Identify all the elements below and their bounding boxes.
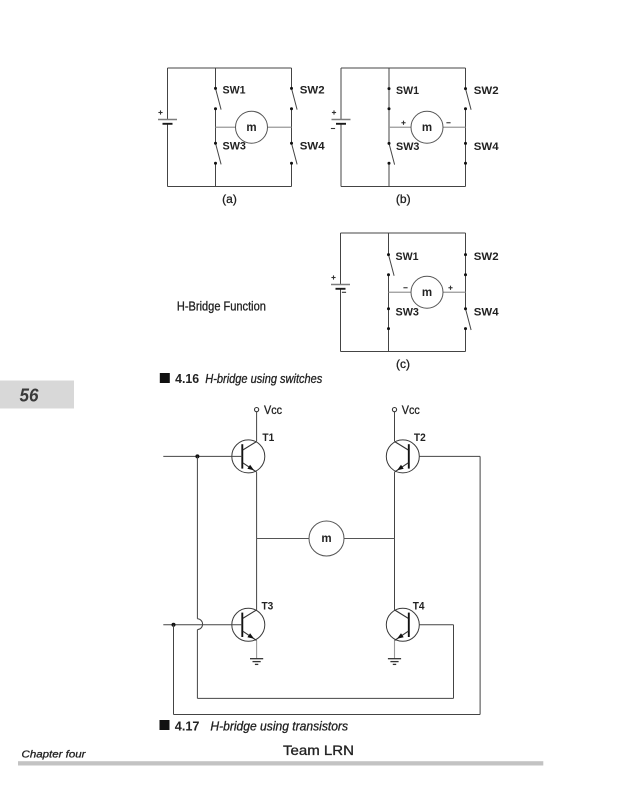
svg-text:SW1: SW1 bbox=[396, 85, 419, 97]
svg-text:H-bridge using transistors: H-bridge using transistors bbox=[210, 719, 348, 733]
svg-text:m: m bbox=[422, 287, 432, 299]
svg-text:m: m bbox=[321, 533, 331, 545]
svg-text:4.16: 4.16 bbox=[175, 372, 199, 386]
svg-text:SW3: SW3 bbox=[396, 306, 419, 318]
svg-text:SW2: SW2 bbox=[474, 251, 499, 263]
svg-text:SW3: SW3 bbox=[223, 141, 246, 153]
svg-text:T2: T2 bbox=[414, 432, 426, 444]
svg-text:T4: T4 bbox=[413, 601, 426, 613]
svg-text:SW2: SW2 bbox=[300, 85, 325, 97]
svg-text:SW4: SW4 bbox=[300, 141, 326, 153]
svg-text:Chapter four: Chapter four bbox=[22, 749, 87, 761]
svg-text:(b): (b) bbox=[396, 192, 411, 206]
svg-text:(c): (c) bbox=[396, 357, 410, 371]
svg-text:Vcc: Vcc bbox=[402, 403, 420, 417]
svg-text:SW3: SW3 bbox=[396, 141, 419, 153]
svg-text:m: m bbox=[422, 122, 432, 134]
svg-text:SW4: SW4 bbox=[474, 306, 500, 318]
svg-text:H-bridge using switches: H-bridge using switches bbox=[205, 372, 322, 386]
svg-text:Team LRN: Team LRN bbox=[283, 742, 354, 758]
svg-text:Vcc: Vcc bbox=[264, 403, 282, 417]
svg-text:SW1: SW1 bbox=[396, 251, 419, 263]
svg-text:T3: T3 bbox=[262, 601, 274, 613]
svg-text:(a): (a) bbox=[222, 192, 237, 206]
svg-text:H-Bridge Function: H-Bridge Function bbox=[177, 299, 266, 314]
svg-text:SW2: SW2 bbox=[474, 85, 499, 97]
svg-text:4.17: 4.17 bbox=[175, 719, 200, 733]
svg-text:SW1: SW1 bbox=[223, 85, 246, 97]
svg-text:56: 56 bbox=[20, 386, 40, 406]
svg-text:T1: T1 bbox=[262, 432, 274, 444]
svg-text:m: m bbox=[246, 122, 256, 134]
svg-text:SW4: SW4 bbox=[474, 141, 500, 153]
